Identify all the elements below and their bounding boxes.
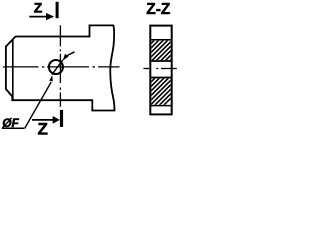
bottom section arrow shaft — [32, 119, 54, 121]
vertical cutting-plane centerline (dash-dot) — [59, 25, 61, 107]
section view horizontal centerline (dash-dot) — [143, 68, 176, 70]
hole circle OF — [49, 60, 63, 74]
bottom cutting plane thick bar — [60, 110, 63, 127]
hatching upper cut band — [125, 30, 201, 70]
section view outer rectangle — [150, 26, 171, 115]
arrowhead at hole upper-right — [63, 54, 69, 61]
horizontal centerline (dash-dot) — [3, 66, 120, 68]
diameter chord through hole — [52, 60, 63, 75]
hatching lower cut band — [121, 64, 205, 112]
svg-text:Z: Z — [38, 120, 48, 139]
chamfer inner edge line — [12, 40, 14, 101]
top cutting plane thick bar — [56, 2, 59, 18]
leader arrowhead at hole lower-left — [49, 75, 53, 81]
leader tail upper-right — [66, 52, 74, 56]
section line: hole bottom edge — [150, 77, 171, 79]
svg-text:Z: Z — [34, 0, 43, 15]
label OF underline — [2, 127, 24, 129]
section line: hole top edge — [150, 60, 171, 62]
top section arrowhead — [46, 13, 54, 20]
section line: bottom of cut band — [150, 105, 171, 107]
leader line from OF to hole — [25, 82, 52, 129]
top section arrow shaft — [29, 16, 47, 18]
svg-text:Z-Z: Z-Z — [146, 1, 171, 18]
section line: top of cut band — [150, 39, 171, 41]
bottom section arrowhead — [53, 116, 60, 124]
main view part outline — [6, 25, 115, 110]
